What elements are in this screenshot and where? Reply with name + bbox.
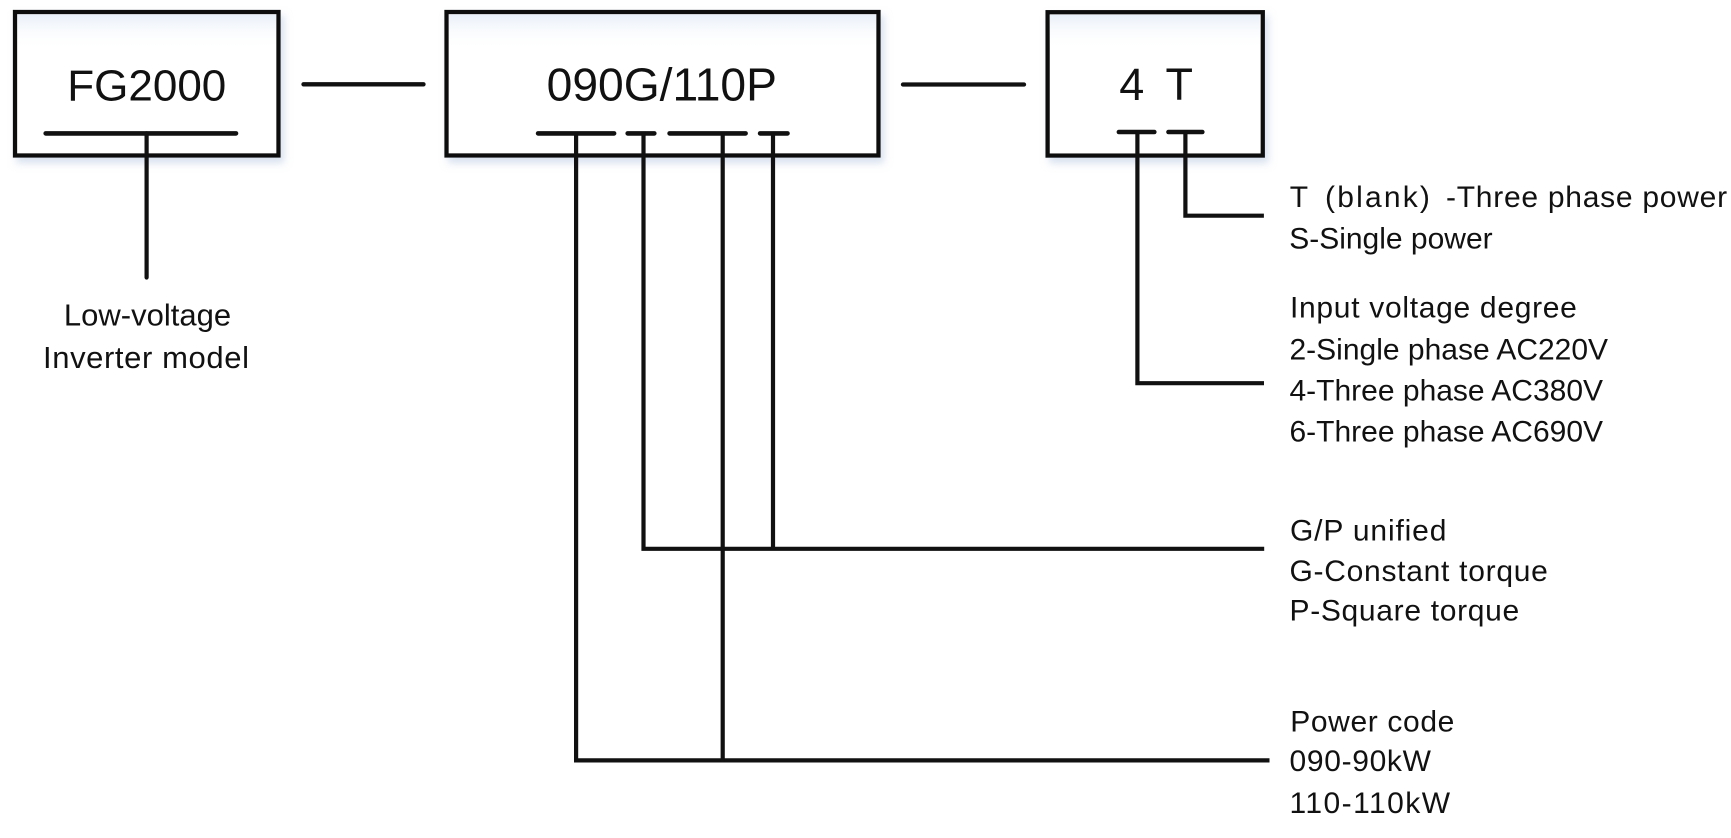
label power code [1290, 705, 1456, 820]
underline G [628, 131, 655, 136]
wire FG2000 to label [145, 133, 149, 277]
svg-text:Inverter model: Inverter model [43, 340, 250, 375]
label G/P unified [1290, 514, 1549, 627]
svg-text:Low-voltage: Low-voltage [64, 298, 231, 333]
svg-text:S-Single power: S-Single power [1289, 223, 1492, 256]
box 090G/110P [447, 12, 879, 156]
svg-text:Input voltage degree: Input voltage degree [1290, 292, 1578, 325]
wire P junction [771, 133, 775, 550]
svg-text:2-Single phase AC220V: 2-Single phase AC220V [1290, 333, 1609, 366]
wire T to phase power leader [1185, 132, 1264, 216]
svg-text:110-110kW: 110-110kW [1290, 787, 1452, 820]
svg-text:090G/110P: 090G/110P [547, 59, 777, 111]
wire G to G/P leader [644, 133, 1265, 548]
underline FG2000 [46, 131, 236, 136]
label T blank three phase power [1289, 181, 1728, 256]
svg-text:G/P unified: G/P unified [1290, 514, 1447, 547]
label Low-voltage Inverter model [43, 298, 250, 376]
svg-text:6-Three phase AC690V: 6-Three phase AC690V [1290, 416, 1604, 449]
svg-text:-Three phase power: -Three phase power [1446, 181, 1728, 214]
svg-text:T: T [1290, 181, 1308, 214]
svg-text:T: T [1165, 59, 1193, 110]
underline 090 [538, 131, 614, 136]
label input voltage degree [1290, 292, 1609, 449]
svg-text:(blank): (blank) [1325, 181, 1432, 214]
svg-text:FG2000: FG2000 [67, 61, 226, 110]
underline 110 [670, 131, 746, 136]
svg-text:P-Square torque: P-Square torque [1290, 594, 1520, 627]
svg-text:4-Three phase AC380V: 4-Three phase AC380V [1290, 375, 1604, 408]
svg-text:4: 4 [1119, 59, 1144, 110]
svg-text:G-Constant torque: G-Constant torque [1290, 555, 1549, 588]
svg-text:Power code: Power code [1290, 705, 1455, 738]
box FG2000 [15, 12, 279, 156]
underline T [1169, 130, 1203, 135]
svg-text:090-90kW: 090-90kW [1290, 745, 1432, 778]
connector box2-box3 [903, 82, 1024, 86]
underline 4 [1119, 130, 1154, 135]
connector box1-box2 [304, 82, 424, 86]
underline P [760, 131, 787, 136]
box 4T [1048, 12, 1263, 155]
wire 110 junction [721, 133, 725, 762]
wire 4 to input voltage leader [1137, 132, 1264, 383]
wire 090 to power code leader [576, 133, 1269, 760]
